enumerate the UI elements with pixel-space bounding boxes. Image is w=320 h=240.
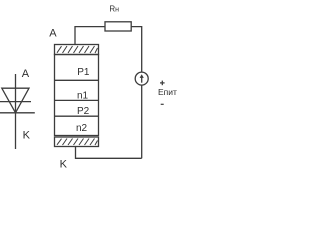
svg-text:n2: n2 [76,123,88,134]
dinistor VS1 triangle [2,88,29,113]
dinistor VS1 cathode bar [0,112,35,114]
svg-text:n1: n1 [77,91,89,102]
hatch lines of anode contact [57,46,98,53]
p-n-p-n structure body [55,55,99,136]
wire bottom return [76,147,142,159]
wire resistor to right rail [131,27,142,73]
svg-text:Eпит: Eпит [158,87,177,97]
svg-text:P1: P1 [77,67,90,78]
anode metal contact (hatched) [55,45,99,55]
svg-text:K: K [23,129,31,141]
junction line P2/n2 [55,115,99,117]
dinistor VS1 upper bar [0,101,31,103]
junction line P1/n1 [55,79,99,81]
wire anode contact to resistor [75,27,105,45]
svg-text:P2: P2 [77,106,90,117]
wire right rail down [141,85,143,158]
cathode metal contact (hatched) [55,137,99,147]
dinistor VS1 vertical axis wire [15,88,17,149]
plus terminal label [160,81,165,86]
current source U1 circle [135,72,148,85]
dinistor VS1 anode wire [15,74,17,89]
svg-text:A: A [22,68,30,80]
hatch lines of cathode contact [57,139,98,146]
svg-text:Rн: Rн [109,4,119,13]
current source arrow [141,77,143,83]
resistor Rн body [105,22,131,31]
minus terminal label [161,103,164,105]
svg-text:K: K [60,159,68,170]
junction line n1/P2 [55,99,99,101]
svg-text:A: A [49,27,57,39]
